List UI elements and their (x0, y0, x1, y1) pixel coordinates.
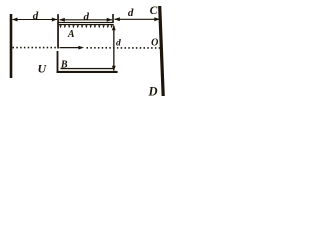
lower riser of plate B (57, 51, 59, 73)
d1 right arrowhead (52, 18, 58, 22)
d2 left arrowhead (59, 18, 65, 22)
tick at right of d2 (112, 14, 114, 23)
svg-text:A: A (67, 29, 75, 40)
plate A upper line (58, 22, 114, 23)
background (0, 0, 177, 101)
vertical d up arrowhead (112, 25, 116, 31)
plate A hatching (59, 25, 112, 28)
svg-text:d: d (116, 39, 121, 49)
svg-text:U: U (37, 61, 47, 75)
beam axis dotted right segment (87, 47, 161, 49)
entrance wall / left riser of deflection box (57, 14, 59, 48)
svg-text:d: d (128, 7, 134, 19)
left accelerating plate (10, 14, 13, 78)
beam axis dotted left segment (13, 47, 57, 49)
dimension line d3 (115, 18, 160, 20)
beam arrowhead (78, 46, 84, 50)
d3 left arrowhead (114, 17, 120, 21)
dimension line d1 (13, 19, 58, 21)
d1 left arrowhead (12, 18, 18, 22)
beam axis solid arrow segment (60, 47, 80, 49)
svg-text:B: B (60, 59, 68, 70)
svg-text:d: d (84, 11, 90, 23)
svg-text:O: O (151, 38, 158, 49)
svg-text:D: D (147, 84, 157, 98)
screen C-D (160, 6, 164, 96)
vertical d down arrowhead (112, 66, 116, 72)
svg-text:d: d (33, 10, 39, 22)
dimension line d2 (60, 19, 113, 21)
vertical dimension line d (between plates) (113, 26, 114, 71)
d2 right arrowhead (107, 18, 113, 22)
plate A lower line (58, 24, 114, 25)
d3 right arrowhead (154, 17, 160, 21)
plate B lower thick line (57, 71, 118, 73)
plate B upper line (61, 68, 114, 69)
svg-text:C: C (150, 5, 158, 17)
